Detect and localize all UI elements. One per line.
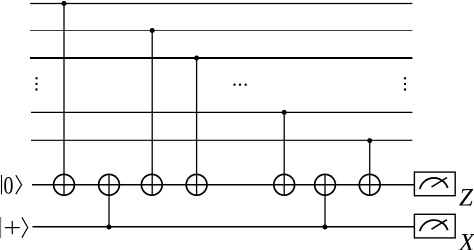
control dot CNOT7 on q5 bbox=[367, 138, 372, 143]
CNOT2 target on |0> bbox=[99, 174, 120, 195]
ket |+> label bbox=[1, 217, 28, 238]
label Z bbox=[459, 185, 474, 212]
wire |0> ancilla bbox=[32, 184, 415, 186]
control dot CNOT5 on q4 bbox=[282, 110, 287, 115]
CNOT5 target on |0> bbox=[274, 174, 295, 195]
CNOT6 target on |0> bbox=[315, 174, 336, 195]
CNOT7 target on |0> bbox=[359, 174, 380, 195]
wire CNOT3 vertical bbox=[151, 31, 153, 196]
label X bbox=[458, 229, 474, 250]
wire q2 bbox=[30, 30, 412, 32]
ket |0> label bbox=[2, 171, 22, 199]
measurement meter X box bbox=[414, 214, 455, 238]
wire CNOT6 vertical bbox=[324, 174, 326, 226]
control dot CNOT3 on q2 bbox=[150, 28, 155, 33]
measurement meter Z box bbox=[414, 172, 455, 196]
control dot CNOT6 on |+> bbox=[323, 225, 328, 230]
wire CNOT1 vertical bbox=[63, 4, 65, 196]
wire CNOT2 vertical bbox=[108, 174, 110, 226]
CNOT4 target on |0> bbox=[186, 174, 207, 195]
wire q5 bbox=[31, 139, 412, 141]
CNOT3 target on |0> bbox=[141, 174, 162, 195]
CNOT1 target on |0> bbox=[54, 174, 75, 195]
control dot CNOT4 on q3 bbox=[194, 56, 199, 61]
svg-text:0: 0 bbox=[4, 171, 14, 199]
wire |+> ancilla bbox=[33, 226, 415, 228]
vertical ellipsis dots right bbox=[404, 77, 406, 91]
wire q1 (top ancilla wire) bbox=[30, 3, 412, 5]
vertical ellipsis dots left bbox=[35, 77, 37, 91]
wire CNOT7 vertical bbox=[369, 140, 371, 195]
control dot CNOT1 on q1 bbox=[62, 1, 67, 6]
svg-text:X: X bbox=[458, 229, 474, 250]
control dot CNOT2 on |+> bbox=[107, 225, 112, 230]
horizontal ellipsis dots middle bbox=[233, 84, 247, 86]
wire CNOT5 vertical bbox=[283, 112, 285, 195]
wire q3 (thick wire) bbox=[30, 57, 412, 59]
svg-text:Z: Z bbox=[459, 185, 474, 212]
wire q4 bbox=[31, 111, 412, 113]
wire CNOT4 vertical bbox=[196, 58, 198, 195]
